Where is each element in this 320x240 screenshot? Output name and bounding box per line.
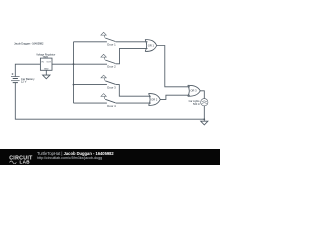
- svg-text:Door 2: Door 2: [107, 65, 116, 69]
- svg-text:Door 1: Door 1: [107, 43, 116, 47]
- svg-text:OR 3: OR 3: [190, 89, 197, 93]
- svg-text:Jacob Duggan - 16405982: Jacob Duggan - 16405982: [14, 41, 44, 45]
- svg-text:GND: GND: [44, 69, 49, 71]
- svg-text:Door 4: Door 4: [107, 104, 116, 108]
- svg-text:OR 2: OR 2: [151, 97, 158, 101]
- svg-text:OUT: OUT: [47, 61, 52, 63]
- svg-text:OR 1: OR 1: [148, 43, 155, 47]
- svg-text:12 V: 12 V: [21, 80, 27, 84]
- svg-text:IN: IN: [42, 61, 45, 63]
- svg-text:Door 3: Door 3: [107, 86, 116, 90]
- svg-text:500 Ω: 500 Ω: [193, 103, 200, 106]
- svg-text:LAB: LAB: [20, 160, 31, 165]
- svg-text:7805: 7805: [43, 56, 49, 59]
